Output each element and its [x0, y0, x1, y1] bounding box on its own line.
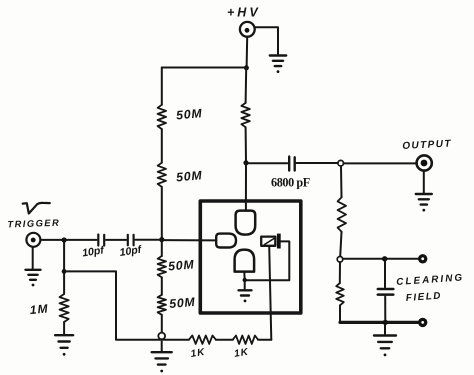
wire N9 to C1: [64, 239, 97, 241]
wire left rail segment R2 to node N2: [161, 187, 163, 240]
wire N10 L-path to bottom rail: [66, 271, 160, 339]
ground G7 (inside box): [239, 289, 252, 291]
keep-alive electrode inner mark: [265, 239, 275, 245]
wire keep-alive down to bottom rail: [269, 246, 271, 340]
svg-text:6800 pF: 6800 pF: [271, 176, 310, 190]
wire line A N1 to R5: [245, 68, 248, 103]
wire R8 to ground: [63, 322, 65, 334]
wire top horizontal bus N1 to left rail: [162, 67, 247, 69]
resistor R6 (output load): [338, 197, 346, 232]
wire output terminal to ground: [423, 171, 425, 193]
resistor R1 50M: [158, 105, 166, 129]
resistor R10 1K: [233, 336, 258, 344]
wire trigger terminal to node N9: [40, 239, 64, 241]
wire C3 to node N5: [296, 162, 337, 164]
wire +HV terminal down to node N1: [246, 37, 249, 68]
svg-text:10pf: 10pf: [81, 244, 106, 259]
anode electrode (top cup): [236, 211, 256, 235]
resistor R8 1M: [60, 294, 69, 322]
svg-text:50M: 50M: [176, 168, 203, 184]
svg-text:TRIGGER: TRIGGER: [7, 218, 60, 230]
svg-text:1K: 1K: [233, 347, 249, 360]
svg-text:50M: 50M: [169, 295, 196, 311]
wire bottom rail R9 to R10: [216, 339, 233, 341]
node N7 junction: [382, 256, 387, 261]
resistor R3 50M: [158, 256, 166, 277]
wire line A R5 to node N4: [245, 127, 247, 162]
wire N9 down to node N10: [63, 243, 65, 272]
svg-text:FIELD: FIELD: [405, 290, 442, 304]
svg-text:10pf: 10pf: [119, 243, 144, 258]
wire +HV terminal to ground: [255, 27, 278, 54]
svg-text:50M: 50M: [176, 106, 203, 122]
wire N5 down to R6: [340, 166, 343, 197]
svg-text:1K: 1K: [190, 347, 206, 360]
node N9 junction: [62, 237, 67, 242]
resistor R5 (unlabeled, plate load): [241, 103, 249, 127]
wire C1 to C2: [106, 239, 126, 241]
wire cathode to node N11: [243, 272, 245, 279]
ground G6 (1M): [55, 334, 73, 336]
wire R6 to node N6: [340, 232, 341, 257]
cathode electrode (bottom dome): [235, 250, 255, 272]
terminal T1 clearing field +: [418, 254, 427, 263]
svg-text:CLEARING: CLEARING: [396, 272, 465, 288]
node N6 open-circle junction: [337, 257, 343, 263]
node N2 junction trigger/grid: [159, 237, 164, 242]
wire N5 to output terminal: [344, 162, 417, 164]
ground G4 (clearing field): [374, 334, 396, 336]
wire C2 to N2: [135, 239, 159, 241]
node N10 junction: [62, 269, 67, 274]
wire N11 to keep-alive electrode: [247, 241, 290, 280]
capacitor C3 6800pF: [288, 157, 290, 171]
wire left rail segment N2-R3: [161, 240, 163, 256]
wire left rail segment R3-R4: [161, 277, 163, 294]
wire trigger terminal stub to ground: [32, 247, 34, 269]
svg-text:1M: 1M: [29, 301, 49, 317]
node N3 open-circle junction: [158, 333, 165, 340]
keep-alive electrode body: [261, 237, 275, 246]
wire bottom rail N3 to R9: [164, 339, 189, 341]
tube envelope box U1: [200, 201, 300, 313]
grid electrode (left cup): [216, 234, 236, 248]
wire clearing bottom rail: [340, 321, 419, 324]
terminal J3 TRIGGER: [26, 233, 40, 247]
wire left rail segment R4 to node N3: [161, 315, 163, 333]
wire bottom rail R10 to tube cathode line: [258, 339, 271, 341]
wire N6 to terminal T1: [343, 258, 419, 260]
wire left rail segment R1-R2: [161, 129, 163, 163]
capacitor C4 clearing field: [378, 288, 394, 291]
wire left rail top segment: [161, 68, 163, 105]
svg-text:+HV: +HV: [227, 6, 261, 20]
node N5 open-circle junction: [338, 160, 344, 166]
ground G2 (below N3): [152, 351, 172, 353]
ground G5 (trigger): [26, 269, 41, 271]
node N8 junction: [383, 320, 388, 325]
wire N4 to C3: [249, 162, 288, 164]
capacitor C1 10pf: [97, 235, 99, 246]
node N11 junction: [243, 278, 247, 282]
resistor R4 50M: [158, 295, 166, 315]
wire N7 down to C4: [384, 261, 386, 287]
ground G1 (top right): [270, 54, 286, 56]
keep-alive electrode plate bar: [277, 234, 281, 249]
wire N10 down to R8: [63, 271, 65, 294]
wire N11 stub to internal ground: [244, 282, 246, 289]
svg-text:OUTPUT: OUTPUT: [402, 138, 452, 152]
node N1 junction: [244, 65, 249, 70]
wire N6 down to R7: [339, 262, 341, 283]
node N4 junction plate/output: [243, 160, 248, 165]
terminal J2 OUTPUT: [417, 155, 432, 170]
trigger pulse waveform icon: [23, 203, 50, 214]
terminal J1 +HV feedthrough: [240, 22, 255, 37]
wire N3 stub to ground: [161, 339, 163, 351]
wire N2 to grid electrode: [164, 239, 216, 241]
wire line A N4 down into box to anode: [245, 163, 247, 211]
resistor R7 (clearing bleeder): [336, 283, 344, 305]
terminal T2 clearing field -: [418, 318, 427, 327]
resistor R9 1K: [189, 336, 216, 344]
wire N8 stub to ground: [384, 325, 386, 334]
capacitor C2 10pf: [127, 235, 129, 246]
ground G3 (below output): [416, 193, 432, 195]
resistor R2 50M: [158, 163, 166, 187]
svg-text:50M: 50M: [168, 257, 195, 273]
wire R7 to bottom rail: [339, 305, 341, 322]
wire C4 down to N8: [384, 297, 386, 322]
